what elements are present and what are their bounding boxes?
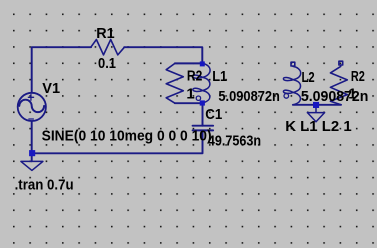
inductor L2 phase dot [284, 94, 289, 99]
svg-text:C1: C1 [205, 106, 222, 123]
value 49.7563n (C1) [208, 132, 261, 149]
node junction: secondary ground [313, 102, 319, 108]
value 5.090872n (L2) [301, 88, 369, 105]
svg-text:R2: R2 [187, 67, 202, 84]
wire: V1 bottom to ground junction [31, 121, 33, 161]
wire: L2 bottom to R2 bottom (secondary rail) [293, 104, 341, 106]
svg-text:SINE(0 10 10meg 0 0 0 10): SINE(0 10 10meg 0 0 0 10) [42, 128, 212, 145]
mutual coupling directive K L1 L2 1 [285, 118, 352, 135]
resistor R2 (left, vertical) [166, 63, 202, 103]
svg-text:R1: R1 [96, 25, 114, 42]
label R1 [96, 25, 114, 42]
label L1 [212, 68, 227, 85]
inductor L2 floating pin marker [291, 62, 295, 66]
svg-text:5.090872n: 5.090872n [301, 88, 369, 105]
svg-text:1: 1 [186, 86, 194, 103]
voltage source V1 [18, 93, 46, 121]
label C1 [205, 106, 222, 123]
svg-text:R2: R2 [351, 68, 365, 85]
value 0.1 [98, 55, 116, 72]
inductor L1 (coil) [193, 63, 210, 103]
svg-text:L2: L2 [302, 69, 315, 86]
value 1 (R2 left) [186, 86, 194, 103]
resistor R2 (right) floating pin marker [339, 61, 343, 65]
svg-text:L1: L1 [212, 68, 227, 85]
svg-text:.tran 0.7u: .tran 0.7u [15, 176, 74, 193]
label R2 (left) [187, 67, 202, 84]
svg-text:V1: V1 [42, 80, 60, 97]
label L2 [302, 69, 315, 86]
svg-text:5.090872n: 5.090872n [218, 88, 280, 105]
inductor L2 (coil, secondary) [283, 66, 300, 104]
svg-text:K L1 L2 1: K L1 L2 1 [285, 118, 352, 135]
capacitor C1 [193, 126, 214, 131]
resistor R1 (in top rail, zigzag above) [91, 40, 125, 55]
value SINE(0 10 10meg 0 0 0 10) [42, 128, 212, 145]
wire: bottom rail to C1 [32, 131, 203, 154]
node junction: V1/ground/bottom rail [29, 150, 35, 156]
label V1 [42, 80, 60, 97]
ground (left) [21, 161, 43, 170]
value 5.090872n (L1) [218, 88, 280, 105]
label R2 (right) [351, 68, 365, 85]
value 1 (R2 right) [348, 86, 356, 103]
inductor L1 phase dot [196, 96, 200, 100]
wire: C1 top to parallel-block bottom junction [202, 103, 204, 126]
node junction: bottom of parallel block [200, 100, 205, 105]
node junction: top of parallel block [200, 61, 205, 66]
spice directive .tran 0.7u [15, 176, 74, 193]
svg-text:0.1: 0.1 [98, 55, 116, 72]
svg-text:1: 1 [348, 86, 356, 103]
resistor R2 (right, vertical) [330, 65, 347, 105]
svg-text:49.7563n: 49.7563n [208, 132, 261, 149]
wire: left vertical + top rail with R1 zigzag + right vertical drop [32, 47, 203, 93]
ground (right) [307, 105, 324, 122]
